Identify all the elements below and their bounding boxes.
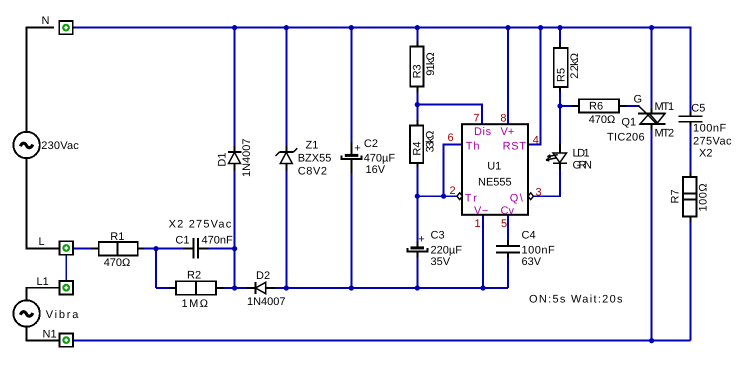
capacitor C4: [496, 229, 555, 267]
capacitor C3 electrolytic: [407, 229, 462, 267]
svg-text:7: 7: [473, 113, 479, 125]
svg-text:Cv: Cv: [501, 205, 515, 217]
junction dot R4-C3: [415, 194, 420, 199]
svg-text:Th: Th: [466, 140, 481, 152]
svg-text:1N4007: 1N4007: [241, 138, 253, 177]
wire DC mid rail segments: [156, 287, 508, 289]
svg-text:R3: R3: [411, 64, 423, 78]
junction dots top rail: [232, 25, 654, 30]
ac source V2 Vibra: [13, 300, 80, 326]
svg-text:1: 1: [475, 218, 481, 230]
svg-text:R5: R5: [555, 68, 567, 82]
wire C2 column: [350, 28, 352, 288]
triac Q1 TIC206: [607, 93, 674, 143]
wire node B to R6: [560, 105, 572, 107]
diode D1 1N4007: [217, 138, 254, 177]
resistor R6: [572, 99, 627, 126]
svg-text:220µF: 220µF: [431, 245, 463, 257]
pin 3 diamond: [528, 193, 533, 200]
capacitor C5: [679, 103, 732, 160]
svg-text:Tr: Tr: [465, 193, 479, 205]
wire triac MT2 down to bottom rail: [651, 130, 653, 341]
svg-text:Q\: Q\: [510, 193, 525, 205]
svg-text:5: 5: [501, 218, 507, 230]
wire left mains black from N terminal down to source V1: [27, 28, 54, 132]
svg-text:33kΩ: 33kΩ: [425, 131, 437, 153]
svg-text:C1: C1: [175, 235, 189, 247]
svg-text:3: 3: [536, 186, 542, 198]
svg-text:470nF: 470nF: [202, 235, 233, 247]
svg-text:MT2: MT2: [655, 127, 674, 139]
svg-text:GRN: GRN: [573, 160, 593, 172]
svg-text:100nF: 100nF: [693, 122, 727, 134]
wire Tr pin2 row: [417, 195, 457, 197]
resistor R4: [410, 120, 437, 167]
svg-text:C4: C4: [522, 229, 536, 241]
wire triac MT1 column: [651, 28, 653, 108]
svg-text:470µF: 470µF: [364, 152, 396, 164]
junction dot Th-Tr: [441, 194, 446, 199]
svg-text:Z1: Z1: [306, 139, 319, 151]
capacitor C1: [169, 219, 233, 259]
svg-text:2: 2: [450, 185, 456, 197]
svg-text:Q1: Q1: [621, 116, 636, 128]
wire V1 bottom to L terminal: [27, 158, 60, 248]
svg-text:16V: 16V: [366, 164, 386, 176]
junction dot node A row: [153, 246, 158, 251]
svg-text:2.2kΩ: 2.2kΩ: [569, 53, 581, 79]
svg-text:NE555: NE555: [478, 177, 512, 189]
svg-text:L: L: [39, 236, 45, 248]
svg-text:RST: RST: [503, 140, 527, 152]
svg-text:R1: R1: [110, 231, 124, 243]
wire Z1 column: [285, 28, 287, 288]
svg-text:6: 6: [448, 132, 454, 144]
svg-text:8: 8: [500, 113, 506, 125]
op timer U1 NE555: [462, 124, 528, 217]
svg-text:LD1: LD1: [573, 148, 590, 160]
resistor R1: [91, 231, 144, 269]
svg-text:V−: V−: [474, 205, 489, 217]
pin 2 diamond: [457, 193, 462, 200]
junction dots DC rail: [232, 285, 486, 290]
svg-text:MT1: MT1: [655, 101, 674, 113]
svg-text:BZX55: BZX55: [298, 152, 332, 164]
svg-text:C5: C5: [691, 103, 705, 115]
svg-text:ON:5s Wait:20s: ON:5s Wait:20s: [529, 294, 624, 306]
svg-text:R6: R6: [589, 101, 603, 113]
wire pin1 V- down to DC rail: [482, 215, 484, 288]
wire node B down to LED: [559, 106, 561, 144]
svg-text:X2: X2: [699, 148, 712, 160]
wire R5 column: [559, 28, 561, 106]
svg-text:+: +: [354, 142, 360, 154]
svg-text:R2: R2: [187, 270, 201, 282]
junction dot C1-D1: [232, 246, 237, 251]
wire C1 right to D1 column: [209, 248, 235, 250]
svg-text:C8V2: C8V2: [298, 165, 328, 177]
junction dot R3-R4-Dis: [415, 102, 420, 107]
wire Th pin6 to Tr node: [444, 145, 462, 197]
svg-text:C2: C2: [364, 138, 378, 150]
wire Vibra bottom to N1 terminal: [27, 327, 60, 341]
wire LED to Q pin3: [533, 170, 560, 196]
wire node A down to DC rail: [155, 249, 157, 288]
resistor R3: [410, 41, 437, 93]
wire top rail N: [73, 28, 691, 112]
svg-text:TIC206: TIC206: [607, 132, 645, 144]
svg-text:100nF: 100nF: [522, 245, 556, 257]
svg-text:91kΩ: 91kΩ: [425, 52, 437, 75]
junction dot triac bottom: [649, 338, 654, 343]
svg-text:+: +: [418, 233, 424, 245]
zener Z1 BZX55 C8V2: [276, 139, 332, 177]
svg-text:D2: D2: [256, 270, 270, 282]
svg-text:100Ω: 100Ω: [698, 183, 710, 212]
wire Vibra top to L1 terminal: [27, 288, 60, 301]
svg-text:N: N: [42, 15, 50, 27]
wire node Dis to pin7: [417, 105, 482, 125]
svg-text:N1: N1: [43, 328, 57, 340]
svg-text:1N4007: 1N4007: [247, 296, 286, 308]
wire R3 column: [416, 28, 418, 120]
terminal L: [39, 236, 73, 255]
wire pin5 Cv to C4 to DC rail: [507, 215, 509, 288]
wire R4 bottom to node: [416, 167, 418, 197]
svg-text:470Ω: 470Ω: [589, 114, 616, 126]
resistor R2: [170, 270, 224, 311]
svg-text:35V: 35V: [431, 256, 451, 268]
wire C5 to R7: [690, 126, 692, 173]
svg-text:L1: L1: [37, 276, 49, 288]
led LD1 GRN: [546, 144, 592, 172]
wire bottom rail from N1: [73, 340, 691, 342]
svg-text:1MΩ: 1MΩ: [182, 298, 210, 310]
junction dot R5-R6-LED: [557, 103, 562, 108]
svg-text:U1: U1: [487, 161, 501, 173]
svg-text:R4: R4: [411, 142, 423, 156]
wire node down to C3: [416, 196, 418, 288]
wire R1 to C1 node: [144, 248, 183, 250]
svg-text:V+: V+: [501, 126, 515, 138]
terminal L1: [37, 276, 73, 295]
svg-text:470Ω: 470Ω: [104, 257, 131, 269]
svg-text:4: 4: [533, 134, 539, 146]
svg-text:X2 275Vac: X2 275Vac: [169, 219, 233, 231]
wire L to R1: [73, 248, 91, 250]
svg-text:230Vac: 230Vac: [41, 140, 79, 152]
resistor R5: [554, 43, 581, 93]
wire R6 to gate: [627, 105, 640, 107]
svg-text:D1: D1: [217, 153, 229, 167]
svg-text:R7: R7: [670, 189, 682, 203]
wire RST pin4 to top rail: [528, 28, 541, 145]
terminal N: [42, 15, 73, 35]
capacitor C2 electrolytic: [342, 138, 396, 176]
wire pin8 V+ to top rail: [507, 28, 509, 125]
terminal N1: [43, 328, 73, 346]
wire L to L1: [65, 255, 67, 281]
svg-text:Dis: Dis: [474, 126, 492, 138]
svg-text:C3: C3: [431, 229, 445, 241]
diode D2 1N4007: [247, 270, 286, 308]
resistor R7: [670, 173, 710, 222]
wire D1 column: [234, 28, 236, 288]
svg-text:275Vac: 275Vac: [693, 135, 732, 147]
svg-text:63V: 63V: [522, 256, 542, 268]
wire R7 to bottom rail: [690, 222, 692, 341]
svg-text:G: G: [634, 93, 643, 105]
svg-text:Vibra: Vibra: [46, 309, 80, 321]
ac source V1 230Vac: [13, 132, 79, 158]
